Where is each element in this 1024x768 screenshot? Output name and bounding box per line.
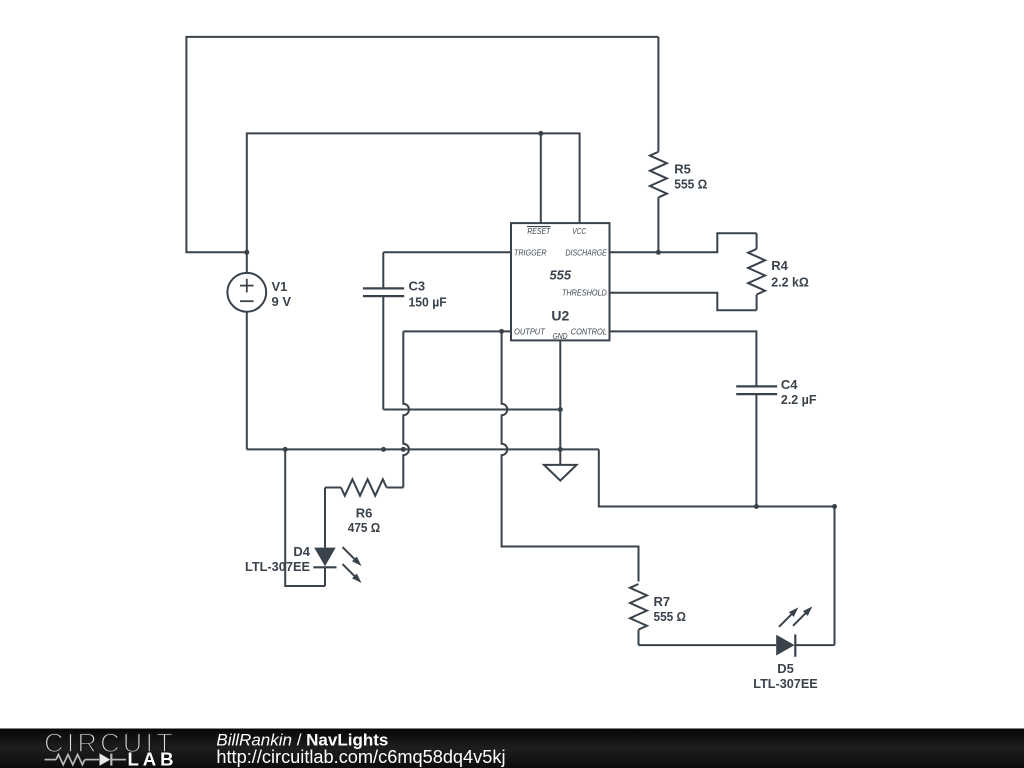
wire R7 to D5 anode (639, 644, 777, 646)
wire RESET drop (540, 133, 542, 223)
wire OUTPUT pin (403, 330, 511, 332)
wire output vertical B with hops (502, 331, 639, 581)
wire rail right drop (599, 449, 835, 506)
svg-text:150 µF: 150 µF (409, 295, 447, 310)
svg-text:DISCHARGE: DISCHARGE (566, 248, 608, 257)
LED D5 (753, 606, 834, 691)
wire output vertical A with hops (403, 331, 409, 487)
LED D4 (245, 488, 362, 587)
wire VCC top loop (V1+ to R5 top) (186, 37, 658, 252)
wire V1+ to VCC/RESET rail (247, 133, 580, 252)
svg-text:THRESHOLD: THRESHOLD (562, 288, 607, 297)
junction D4 return on rail (283, 447, 288, 452)
svg-text:CONTROL: CONTROL (571, 327, 607, 336)
svg-text:LAB: LAB (128, 748, 178, 768)
svg-text:9 V: 9 V (272, 294, 292, 309)
junction GND on ground rail (558, 447, 563, 452)
svg-text:555: 555 (549, 268, 571, 283)
wire D5 cathode up (834, 507, 836, 646)
svg-text:LTL-307EE: LTL-307EE (753, 676, 818, 691)
junction C4 bottom (754, 504, 759, 509)
svg-text:http://circuitlab.com/c6mq58dq: http://circuitlab.com/c6mq58dq4v5kj (216, 747, 505, 767)
wire DISCHARGE to R4 top (610, 233, 757, 252)
svg-text:OUTPUT: OUTPUT (514, 327, 546, 336)
junction V1+ node (244, 250, 249, 255)
wire TRIGGER to C3 top (383, 251, 511, 253)
svg-text:C4: C4 (781, 377, 798, 392)
svg-text:C3: C3 (409, 279, 426, 294)
svg-text:2.2 kΩ: 2.2 kΩ (771, 274, 809, 289)
svg-text:VCC: VCC (572, 227, 586, 236)
svg-text:R7: R7 (654, 594, 671, 609)
svg-text:555 Ω: 555 Ω (654, 609, 687, 624)
op-amp U1 555 IC box U2 (511, 223, 610, 341)
capacitor C3 (363, 252, 447, 409)
resistor R4 (748, 233, 809, 310)
svg-text:D5: D5 (777, 661, 794, 676)
svg-text:2.2 µF: 2.2 µF (781, 392, 817, 407)
svg-text:GND: GND (553, 332, 568, 341)
junction RESET on rail (538, 131, 543, 136)
FOOTER (0, 728, 1024, 768)
ground (544, 465, 577, 481)
svg-text:V1: V1 (272, 279, 288, 294)
svg-text:U2: U2 (551, 308, 569, 324)
svg-text:555 Ω: 555 Ω (674, 177, 707, 192)
svg-text:R6: R6 (356, 506, 373, 521)
junction rail b (401, 447, 406, 452)
resistor R5 (650, 37, 707, 252)
wire ground rail (247, 448, 599, 450)
svg-text:RESET: RESET (527, 227, 551, 236)
wire R4 bottom to THRESHOLD (610, 293, 757, 310)
junction C3/GND (558, 407, 563, 412)
resistor R7 (630, 584, 686, 645)
svg-text:D4: D4 (293, 544, 310, 559)
svg-text:R4: R4 (771, 258, 788, 273)
wire CONTROL to C4 (610, 331, 757, 386)
junction R5 bottom on discharge wire (656, 250, 661, 255)
capacitor C4 (736, 377, 816, 506)
wire C3 bottom to GND line (383, 409, 560, 411)
logo resistor-diode glyph (45, 754, 127, 766)
wire D4 cathode return (285, 449, 325, 586)
junction output branch (499, 329, 504, 334)
junction rail a (381, 447, 386, 452)
svg-text:475 Ω: 475 Ω (348, 520, 381, 535)
svg-text:TRIGGER: TRIGGER (514, 248, 547, 257)
voltage source V1 (227, 252, 291, 449)
wire GND pin down (559, 340, 561, 465)
svg-text:LTL-307EE: LTL-307EE (245, 559, 310, 574)
junction rail corner (832, 504, 837, 509)
svg-text:R5: R5 (674, 162, 691, 177)
resistor R6 (325, 479, 403, 535)
